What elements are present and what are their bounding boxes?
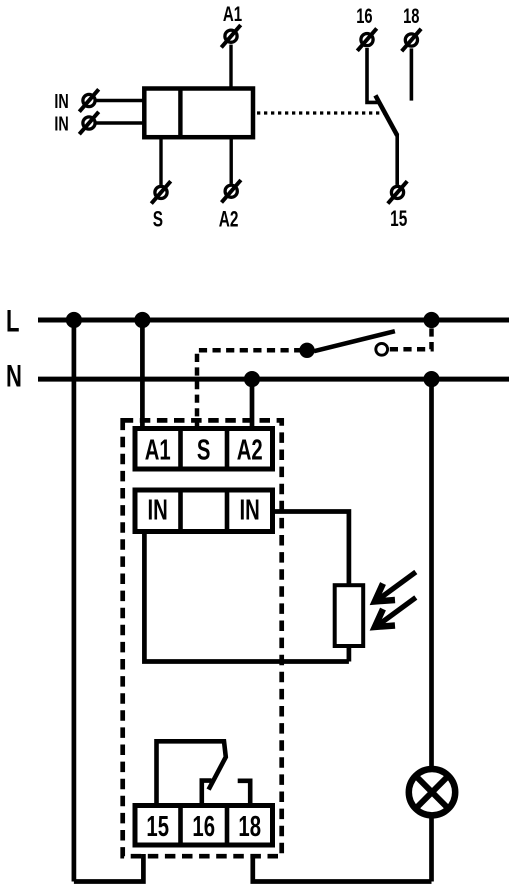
svg-text:16: 16 — [356, 5, 372, 28]
dashed wire S terminal to override switch — [197, 350, 300, 430]
wire N to lamp — [429, 379, 434, 766]
terminal 15 (screw) — [388, 181, 407, 203]
svg-text:18: 18 — [238, 810, 261, 842]
light arrow 1 — [375, 572, 416, 602]
svg-text:18: 18 — [403, 5, 419, 28]
terminal 18 (screw) — [402, 29, 421, 51]
svg-text:IN: IN — [148, 494, 168, 526]
override switch pole — [300, 343, 314, 357]
svg-text:S: S — [153, 208, 163, 232]
device outline (dashed box) — [123, 420, 282, 856]
wire N supply line — [38, 377, 509, 382]
light arrow 2 — [375, 598, 416, 628]
wire IN left to LDR bottom — [144, 532, 349, 662]
wire L to A1 — [140, 320, 145, 430]
svg-text:L: L — [6, 303, 19, 339]
wire L to terminal 15 (left leg) — [72, 320, 77, 882]
wire IN lower to box — [97, 121, 145, 124]
fixed contact 18 — [238, 781, 251, 807]
wire terminal 15 to left leg — [74, 854, 143, 882]
terminal IN upper (screw) — [79, 89, 98, 111]
terminal A1 (screw) — [221, 25, 240, 47]
wire IN right to LDR top — [273, 512, 349, 587]
wire S from box — [159, 137, 162, 185]
wire terminal 18 to lamp — [253, 854, 432, 882]
wire 18 open contact — [410, 48, 414, 100]
node L-A1 junction — [135, 312, 150, 327]
terminal row 15-16-18 — [135, 806, 273, 846]
svg-text:16: 16 — [192, 810, 215, 842]
relay coil box U1 — [144, 89, 253, 138]
lamp E1 — [409, 769, 455, 815]
svg-text:15: 15 — [146, 810, 169, 842]
svg-text:IN: IN — [240, 494, 260, 526]
svg-text:A2: A2 — [237, 434, 263, 466]
wire LDR bottom stub — [347, 645, 352, 662]
photoresistor R1 (LDR body) — [335, 585, 364, 646]
wire lamp bottom — [429, 819, 434, 882]
relay box divider — [178, 89, 182, 138]
terminal row IN-IN — [135, 490, 273, 532]
wire IN upper to box — [97, 99, 145, 102]
svg-text:S: S — [197, 434, 211, 466]
terminal A2 (screw) — [222, 180, 241, 202]
override switch lever S1 — [314, 331, 395, 351]
svg-text:A1: A1 — [223, 1, 242, 25]
terminal IN lower (screw) — [79, 112, 98, 134]
relay moving contact from 15 — [157, 741, 226, 807]
wire 15 lead — [395, 134, 399, 185]
contact lever 15-16 (top diagram) — [375, 95, 397, 135]
svg-text:IN: IN — [54, 90, 68, 113]
terminal S (screw) — [151, 181, 170, 203]
terminal row A1-S-A2 — [135, 429, 273, 470]
wire N to A2 — [250, 379, 255, 430]
wire L supply line — [38, 318, 509, 323]
dashed wire override switch to L — [390, 322, 432, 349]
svg-text:15: 15 — [390, 208, 407, 232]
node L-override junction — [424, 312, 439, 327]
wire 16 contact — [367, 48, 378, 102]
svg-text:A1: A1 — [145, 434, 171, 466]
svg-text:N: N — [6, 357, 22, 393]
terminal 16 (screw) — [357, 28, 376, 50]
node N-A2 junction — [244, 372, 259, 387]
dotted mechanical link coil to contact — [257, 111, 385, 114]
wire A2 from box — [229, 137, 232, 184]
node L-15 junction — [66, 312, 81, 327]
svg-text:IN: IN — [54, 112, 68, 135]
wire A1 to relay box — [229, 45, 232, 90]
override switch throw contact — [376, 343, 388, 355]
svg-text:A2: A2 — [219, 208, 239, 232]
fixed contact 16 — [202, 781, 212, 807]
node N-lamp junction — [424, 372, 439, 387]
